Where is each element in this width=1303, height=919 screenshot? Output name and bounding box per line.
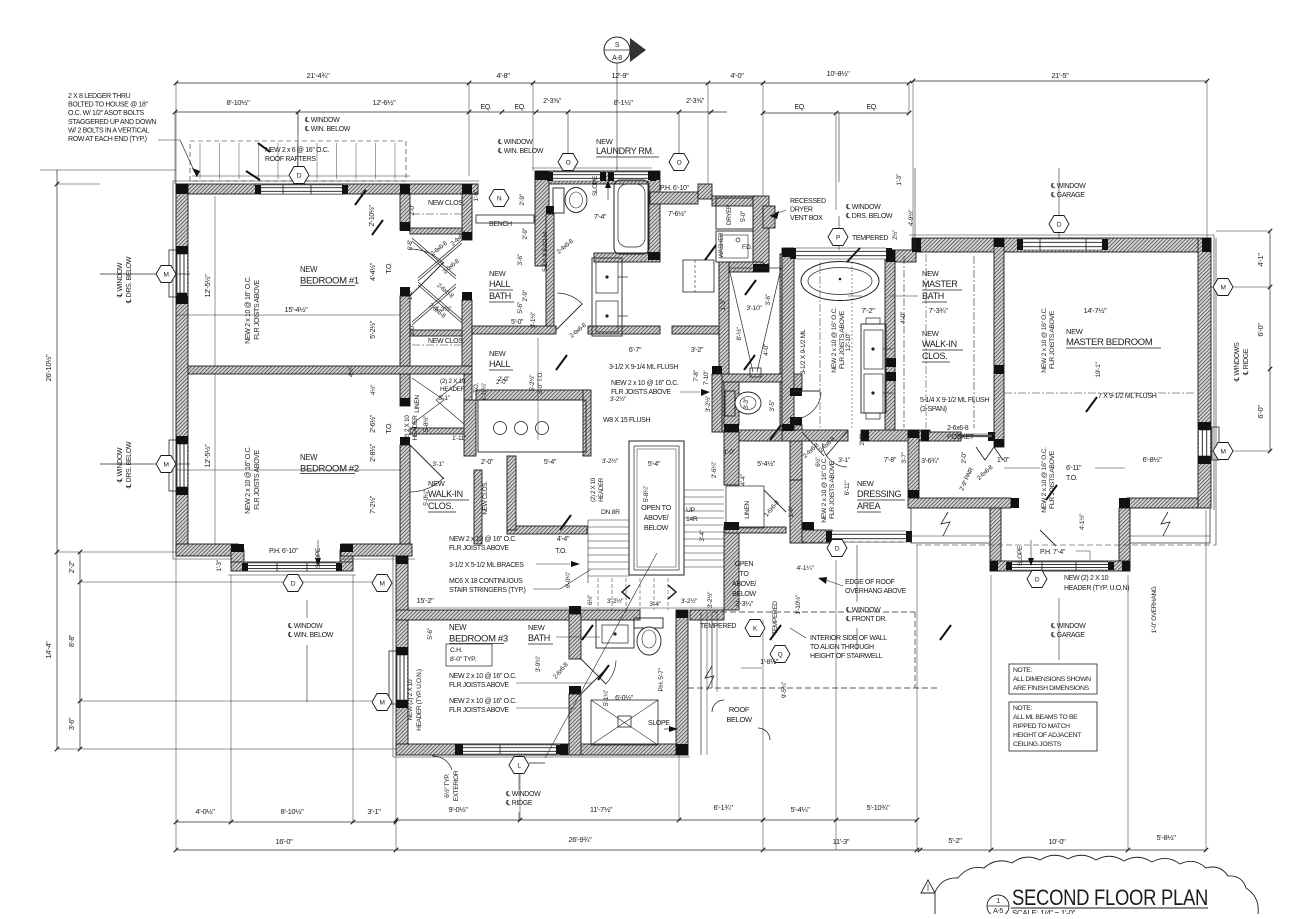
bath east wall xyxy=(676,610,688,755)
svg-text:FLR JOISTS ABOVE: FLR JOISTS ABOVE xyxy=(829,460,836,519)
svg-text:6'-11": 6'-11" xyxy=(1066,465,1082,472)
closet divider lower xyxy=(410,330,462,336)
svg-text:℄ FRONT DR.: ℄ FRONT DR. xyxy=(845,616,887,623)
svg-text:3'-2½": 3'-2½" xyxy=(610,395,627,403)
svg-text:NEW 2 x 10 @ 16" O.C.: NEW 2 x 10 @ 16" O.C. xyxy=(611,380,679,387)
svg-text:8'-1½": 8'-1½" xyxy=(613,98,633,107)
svg-text:3'-6": 3'-6" xyxy=(765,293,772,305)
svg-text:4½": 4½" xyxy=(347,366,355,377)
svg-text:M: M xyxy=(379,699,384,706)
master bath tempered window xyxy=(796,248,886,259)
master suite north wall xyxy=(912,238,1211,252)
svg-text:EQ.: EQ. xyxy=(480,104,491,111)
svg-text:FLR JOISTS ABOVE: FLR JOISTS ABOVE xyxy=(254,279,261,339)
svg-text:D: D xyxy=(291,580,296,587)
hall bath west plumbing wall xyxy=(535,171,549,266)
svg-text:4'-1": 4'-1" xyxy=(1256,253,1265,267)
svg-text:℄ WINDOW: ℄ WINDOW xyxy=(117,447,124,483)
svg-text:BEDROOM #1: BEDROOM #1 xyxy=(300,276,359,287)
laundry ne wall xyxy=(712,196,758,206)
svg-text:ARE FINISH DIMENSIONS: ARE FINISH DIMENSIONS xyxy=(1013,685,1090,692)
svg-text:5'-6": 5'-6" xyxy=(427,627,434,639)
svg-text:6'-0": 6'-0" xyxy=(1256,323,1265,337)
svg-text:2'-0": 2'-0" xyxy=(409,323,416,335)
svg-text:NEW 2 x 10 @ 16" O.C.: NEW 2 x 10 @ 16" O.C. xyxy=(245,446,252,514)
svg-text:℄ GARAGE: ℄ GARAGE xyxy=(1050,632,1085,639)
svg-text:NEW 2 x 10 @ 16" O.C.: NEW 2 x 10 @ 16" O.C. xyxy=(1041,307,1048,373)
svg-text:5'-2½": 5'-2½" xyxy=(528,374,536,391)
door bedroom1 xyxy=(410,262,444,296)
svg-text:LINEN: LINEN xyxy=(744,501,751,519)
svg-text:OVERHANG ABOVE: OVERHANG ABOVE xyxy=(845,588,907,595)
door bedroom2 xyxy=(410,445,444,479)
svg-text:F.D.: F.D. xyxy=(742,244,752,251)
bay window sill wall xyxy=(231,562,353,571)
svg-text:2'-3⅝": 2'-3⅝" xyxy=(686,98,705,105)
left exterior wall xyxy=(176,184,188,556)
stair hall south wall xyxy=(396,610,640,620)
svg-text:6½": 6½" xyxy=(815,457,822,467)
svg-text:D: D xyxy=(835,545,840,552)
master bath west wall xyxy=(782,248,794,432)
svg-text:6'-0¼": 6'-0¼" xyxy=(565,571,572,588)
svg-text:15'-4½": 15'-4½" xyxy=(285,305,309,314)
master south wall west segment xyxy=(908,498,1011,508)
svg-text:FLR JOISTS ABOVE: FLR JOISTS ABOVE xyxy=(449,707,509,714)
svg-text:FLR JOISTS ABOVE: FLR JOISTS ABOVE xyxy=(839,310,846,369)
svg-text:19'-1": 19'-1" xyxy=(1095,361,1102,377)
left dimension column xyxy=(56,170,58,749)
svg-text:3'-1": 3'-1" xyxy=(838,457,851,464)
svg-text:21'-5": 21'-5" xyxy=(1051,71,1069,80)
tub south wall xyxy=(594,253,660,262)
svg-text:NEW: NEW xyxy=(428,479,446,488)
right dimension column xyxy=(1269,231,1271,451)
svg-text:℄ WINDOW: ℄ WINDOW xyxy=(1050,183,1086,190)
svg-text:℄ WINDOW: ℄ WINDOW xyxy=(505,791,541,798)
svg-text:W/ 2 BOLTS IN A VERTICAL: W/ 2 BOLTS IN A VERTICAL xyxy=(68,127,150,134)
svg-text:℄ WINDOW: ℄ WINDOW xyxy=(287,623,323,630)
svg-text:8'-0" TYP.: 8'-0" TYP. xyxy=(450,656,476,663)
svg-text:5'-2½": 5'-2½" xyxy=(369,320,377,339)
closet divider upper xyxy=(410,228,462,234)
svg-text:NEW 2 x 10 @ 16" O.C.: NEW 2 x 10 @ 16" O.C. xyxy=(449,673,517,680)
svg-text:NEW: NEW xyxy=(596,137,614,146)
svg-text:HEADER: HEADER xyxy=(598,477,605,502)
svg-text:2'-0": 2'-0" xyxy=(481,459,494,466)
svg-text:NEW: NEW xyxy=(1066,327,1084,336)
svg-text:NEW: NEW xyxy=(300,265,318,274)
svg-text:2'-9": 2'-9" xyxy=(522,227,529,239)
master suite east wall xyxy=(1198,238,1211,508)
centerline window bottom-left xyxy=(306,600,308,618)
svg-text:TEMPERED: TEMPERED xyxy=(700,623,736,630)
svg-text:8'-8": 8'-8" xyxy=(69,634,76,647)
svg-text:4'-8": 4'-8" xyxy=(496,71,510,80)
linen2 box xyxy=(726,486,764,528)
svg-text:(2-SPAN): (2-SPAN) xyxy=(920,406,947,413)
svg-text:FLR JOISTS ABOVE: FLR JOISTS ABOVE xyxy=(254,449,261,509)
svg-text:℄ WINDOW: ℄ WINDOW xyxy=(845,204,881,211)
svg-text:NEW (2) 2 X 10: NEW (2) 2 X 10 xyxy=(1064,575,1109,582)
svg-text:NEW: NEW xyxy=(449,623,467,632)
svg-text:C.H.: C.H. xyxy=(450,647,463,654)
svg-text:M: M xyxy=(1220,448,1225,455)
svg-text:3'-1": 3'-1" xyxy=(438,395,450,402)
svg-text:4½": 4½" xyxy=(369,384,377,395)
closet rods dash-dot xyxy=(412,213,462,215)
svg-text:6'-11": 6'-11" xyxy=(844,480,851,496)
svg-text:3-1/2 X 5-1/2 ML BRACES: 3-1/2 X 5-1/2 ML BRACES xyxy=(449,562,524,569)
svg-text:14'-7½": 14'-7½" xyxy=(1084,306,1108,315)
rafter zone top left xyxy=(190,141,406,181)
toilet powder xyxy=(725,391,735,416)
svg-text:℄ RIDGE: ℄ RIDGE xyxy=(505,800,533,807)
svg-text:7'-4": 7'-4" xyxy=(594,214,607,221)
svg-text:4'-1½": 4'-1½" xyxy=(1078,513,1086,530)
svg-text:2'-6¼": 2'-6¼" xyxy=(711,461,718,478)
svg-text:15'-2": 15'-2" xyxy=(416,596,434,605)
laundry notch corner xyxy=(698,184,712,199)
svg-text:14R: 14R xyxy=(686,516,698,523)
toilet hall bath xyxy=(553,188,564,213)
svg-text:2'-9": 2'-9" xyxy=(519,193,526,205)
shower column east wall xyxy=(780,254,792,432)
svg-text:3'-4": 3'-4" xyxy=(649,601,661,608)
svg-text:4'-4": 4'-4" xyxy=(557,536,570,543)
svg-text:6'-6": 6'-6" xyxy=(408,240,414,250)
svg-text:P.H. 6'-10": P.H. 6'-10" xyxy=(269,548,299,555)
bedroom3 west window xyxy=(397,655,407,700)
linen2 south wall xyxy=(724,527,786,533)
svg-text:NEW: NEW xyxy=(489,269,507,278)
bottom wall west segment xyxy=(176,544,238,556)
svg-text:CLOS.: CLOS. xyxy=(922,351,947,361)
svg-text:MASTER BEDROOM: MASTER BEDROOM xyxy=(1066,337,1153,348)
svg-text:1'-11": 1'-11" xyxy=(452,435,467,442)
svg-text:STAGGERED UP AND DOWN: STAGGERED UP AND DOWN xyxy=(68,119,156,126)
svg-text:NEW CLOS.: NEW CLOS. xyxy=(482,481,489,515)
bench xyxy=(476,215,534,223)
section marker A-8 xyxy=(604,37,630,63)
svg-text:3'-5": 3'-5" xyxy=(769,399,776,411)
svg-text:3'-10": 3'-10" xyxy=(746,305,762,312)
svg-text:3'-2½": 3'-2½" xyxy=(681,597,698,605)
svg-text:HEADER (TYP. U.O.N): HEADER (TYP. U.O.N) xyxy=(1064,585,1129,592)
svg-text:TO ALIGN THROUGH: TO ALIGN THROUGH xyxy=(810,644,874,651)
svg-text:9'-0½": 9'-0½" xyxy=(448,805,468,814)
svg-text:RECESSED: RECESSED xyxy=(790,198,826,205)
svg-text:NEW: NEW xyxy=(528,623,546,632)
svg-text:EQ.: EQ. xyxy=(514,104,525,111)
svg-text:NEW 2 x 10 @ 16" O.C.: NEW 2 x 10 @ 16" O.C. xyxy=(1041,447,1048,513)
svg-text:NEW 2 x 10 @ 16" O.C.: NEW 2 x 10 @ 16" O.C. xyxy=(831,307,838,373)
walk-in closet east wall xyxy=(474,470,482,544)
svg-text:6'-1¾": 6'-1¾" xyxy=(713,803,733,812)
svg-text:12'-6½": 12'-6½" xyxy=(373,98,397,107)
svg-text:MASTER: MASTER xyxy=(922,279,958,289)
washer xyxy=(716,231,753,262)
svg-text:4'-0": 4'-0" xyxy=(900,311,907,324)
shower column south wall xyxy=(726,430,782,441)
svg-text:9'-5¾": 9'-5¾" xyxy=(781,681,788,698)
svg-text:EQ.: EQ. xyxy=(866,104,877,111)
closet X doors bedroom area xyxy=(412,238,456,276)
svg-text:8'-½": 8'-½" xyxy=(735,326,743,340)
svg-text:FLR JOISTS ABOVE: FLR JOISTS ABOVE xyxy=(611,389,671,396)
svg-text:1'-9": 1'-9" xyxy=(788,505,795,517)
svg-text:NEW 2 x 6 @ 16" O.C.: NEW 2 x 6 @ 16" O.C. xyxy=(265,147,329,154)
svg-text:CEILING JOISTS: CEILING JOISTS xyxy=(1013,741,1062,748)
svg-text:6'-0": 6'-0" xyxy=(1256,405,1265,419)
svg-text:℄ WINDOW: ℄ WINDOW xyxy=(117,262,124,298)
svg-text:5'-4": 5'-4" xyxy=(648,461,661,468)
svg-text:5'-8¼": 5'-8¼" xyxy=(643,485,650,502)
title triangle xyxy=(921,880,935,893)
svg-text:NEW 2 x 10 @ 16" O.C.: NEW 2 x 10 @ 16" O.C. xyxy=(821,457,828,523)
master closet door bifold xyxy=(976,447,1003,460)
svg-text:T.O.: T.O. xyxy=(474,383,480,393)
svg-text:VENT BOX: VENT BOX xyxy=(790,215,823,222)
svg-text:1'-9": 1'-9" xyxy=(473,189,480,201)
svg-text:14'-4": 14'-4" xyxy=(44,641,53,659)
svg-text:NEW: NEW xyxy=(922,269,940,278)
svg-text:FLR JOISTS ABOVE: FLR JOISTS ABOVE xyxy=(1049,450,1056,509)
svg-text:℄ WINDOW: ℄ WINDOW xyxy=(845,607,881,614)
svg-text:26'-10½": 26'-10½" xyxy=(44,354,53,381)
centerline garage window xyxy=(1058,168,1060,238)
svg-text:EQ.: EQ. xyxy=(794,104,805,111)
window seat outlines master xyxy=(911,508,990,543)
svg-text:WASHER: WASHER xyxy=(718,232,725,258)
centerline top-left window xyxy=(297,112,299,184)
svg-text:2'-3¼": 2'-3¼" xyxy=(735,601,754,608)
svg-text:6'-0½": 6'-0½" xyxy=(615,694,634,702)
svg-text:2'-2": 2'-2" xyxy=(69,560,76,573)
svg-text:1'-0" OVERHANG: 1'-0" OVERHANG xyxy=(1151,586,1158,633)
svg-text:1: 1 xyxy=(996,898,1000,905)
linen shelving triangles xyxy=(412,378,444,424)
svg-text:4'-4": 4'-4" xyxy=(740,473,747,485)
svg-text:1'-3": 1'-3" xyxy=(216,559,223,571)
svg-text:16'-0": 16'-0" xyxy=(275,837,293,846)
revision cloud xyxy=(935,855,1258,914)
svg-text:A-5: A-5 xyxy=(993,908,1003,914)
svg-text:INTERIOR SIDE OF WALL: INTERIOR SIDE OF WALL xyxy=(810,635,887,642)
svg-text:2'-0": 2'-0" xyxy=(498,376,510,383)
bath3 shower xyxy=(591,700,658,745)
note box 2 xyxy=(1009,702,1097,751)
svg-text:W8 X 15 FLUSH: W8 X 15 FLUSH xyxy=(603,417,650,424)
svg-text:(2) 2 X 10: (2) 2 X 10 xyxy=(404,415,411,441)
svg-text:4'-0": 4'-0" xyxy=(730,71,744,80)
svg-text:NEW CLOS.: NEW CLOS. xyxy=(428,200,465,207)
dressing doors xyxy=(802,432,824,456)
svg-text:BATH: BATH xyxy=(922,291,944,301)
linen closet walls xyxy=(464,374,472,434)
svg-text:7 X 9-1/2 ML FLUSH: 7 X 9-1/2 ML FLUSH xyxy=(1098,393,1157,400)
svg-text:11'-3": 11'-3" xyxy=(833,837,850,846)
svg-text:4'-0½": 4'-0½" xyxy=(195,807,215,816)
svg-text:BENCH: BENCH xyxy=(489,221,512,228)
stair shaft open to above/below xyxy=(629,441,684,575)
svg-text:5'-4": 5'-4" xyxy=(544,459,557,466)
svg-text:℄ WINDOWS: ℄ WINDOWS xyxy=(1234,342,1241,382)
svg-text:SCALE: 1/4" = 1'-0": SCALE: 1/4" = 1'-0" xyxy=(1012,909,1076,914)
hall built-in counter xyxy=(478,400,586,452)
svg-text:ROOF: ROOF xyxy=(729,705,750,714)
svg-text:℄ WINDOW: ℄ WINDOW xyxy=(497,139,533,146)
svg-text:BEDROOM #2: BEDROOM #2 xyxy=(300,464,359,475)
svg-text:D: D xyxy=(1035,576,1040,583)
svg-text:3'-4": 3'-4" xyxy=(699,529,706,541)
laundry north wall xyxy=(535,171,650,184)
svg-text:2'-0": 2'-0" xyxy=(859,433,866,445)
svg-text:1'-8½": 1'-8½" xyxy=(760,658,779,666)
svg-text:FLR JOISTS ABOVE: FLR JOISTS ABOVE xyxy=(449,682,509,689)
svg-text:D: D xyxy=(1057,221,1062,228)
svg-text:FLR JOISTS ABOVE: FLR JOISTS ABOVE xyxy=(449,545,509,552)
wall between bedroom1 and bedroom2 xyxy=(188,366,472,374)
svg-text:O: O xyxy=(677,159,682,166)
centerline front door xyxy=(856,545,858,602)
stair treads right (up) xyxy=(684,489,724,491)
master bay west cheek xyxy=(990,508,1001,571)
svg-text:7'-8": 7'-8" xyxy=(884,457,897,464)
svg-text:2'-0": 2'-0" xyxy=(409,203,416,215)
svg-text:SECOND FLOOR PLAN: SECOND FLOOR PLAN xyxy=(1012,885,1208,910)
svg-text:5'-0": 5'-0" xyxy=(511,319,524,326)
svg-text:NEW 2 x 10 @ 16" O.C.: NEW 2 x 10 @ 16" O.C. xyxy=(449,536,517,543)
svg-text:RIPPED TO MATCH: RIPPED TO MATCH xyxy=(1013,723,1070,730)
svg-text:S: S xyxy=(615,42,620,49)
bay window right cheek xyxy=(340,550,353,570)
bath3 sink xyxy=(596,620,634,648)
svg-text:NEW: NEW xyxy=(857,479,875,488)
counter room walls xyxy=(476,390,589,400)
svg-text:BATH: BATH xyxy=(528,633,550,643)
svg-text:TO: TO xyxy=(740,571,750,578)
svg-text:ROW AT EACH END (TYP.): ROW AT EACH END (TYP.) xyxy=(68,136,147,143)
svg-text:ALL ML BEAMS TO BE: ALL ML BEAMS TO BE xyxy=(1013,714,1078,721)
hall bath vanity xyxy=(592,258,622,336)
svg-text:AREA: AREA xyxy=(857,501,880,511)
svg-text:7'-3¾": 7'-3¾" xyxy=(928,306,948,315)
laundry notch wall xyxy=(650,192,698,204)
svg-text:6½": 6½" xyxy=(586,594,594,605)
top dimension row 1 xyxy=(176,82,909,84)
svg-text:BELOW: BELOW xyxy=(644,523,669,532)
svg-text:℄ WINDOW: ℄ WINDOW xyxy=(1050,623,1086,630)
svg-text:℄ GARAGE: ℄ GARAGE xyxy=(1050,192,1085,199)
svg-text:5'-4½": 5'-4½" xyxy=(757,460,776,468)
svg-text:6½" TYP.: 6½" TYP. xyxy=(443,774,451,798)
exterior sheathing offset lines xyxy=(173,180,479,182)
master bay door swing xyxy=(1040,530,1056,546)
master bay east cheek xyxy=(1119,508,1130,571)
svg-text:BATH: BATH xyxy=(489,291,511,301)
stair hall east wall xyxy=(724,382,739,425)
master bay sill wall xyxy=(990,561,1130,571)
stair winders bottom xyxy=(597,578,599,610)
svg-text:2'-6½": 2'-6½" xyxy=(369,414,377,433)
svg-text:5-1/4 X 9-1/2 ML FLUSH: 5-1/4 X 9-1/2 ML FLUSH xyxy=(920,397,989,404)
svg-text:℄ WIN. BELOW: ℄ WIN. BELOW xyxy=(287,632,334,639)
centerlines laundry windows xyxy=(567,113,569,171)
svg-text:DRYER: DRYER xyxy=(726,204,733,225)
laundry north windows xyxy=(553,172,600,181)
window seat zigzags xyxy=(941,512,950,536)
bathtub laundry xyxy=(614,180,649,254)
svg-text:HEIGHT OF ADJACENT: HEIGHT OF ADJACENT xyxy=(1013,732,1081,739)
big shower master xyxy=(729,268,753,372)
svg-text:(2) 2 X 10: (2) 2 X 10 xyxy=(590,477,597,502)
svg-text:11'-7½": 11'-7½" xyxy=(590,805,613,814)
walk-in/bedroom divider wall xyxy=(994,238,1004,447)
stair direction chevrons xyxy=(622,585,630,599)
svg-text:EDGE OF ROOF: EDGE OF ROOF xyxy=(845,579,895,586)
bath3 toilet xyxy=(634,618,663,628)
black jack blocks at openings xyxy=(400,222,410,231)
svg-text:12'-5½": 12'-5½" xyxy=(203,444,212,468)
svg-text:N: N xyxy=(497,195,502,202)
svg-text:3'-2½": 3'-2½" xyxy=(706,591,714,608)
svg-text:WALK-IN: WALK-IN xyxy=(922,339,957,349)
svg-text:1'-0": 1'-0" xyxy=(723,449,735,456)
svg-text:5'-2": 5'-2" xyxy=(948,836,962,845)
svg-text:NEW: NEW xyxy=(300,453,318,462)
closet column east wall xyxy=(462,194,472,240)
svg-text:ABOVE/: ABOVE/ xyxy=(644,513,669,522)
svg-text:3'-2½": 3'-2½" xyxy=(704,395,712,412)
svg-text:Q: Q xyxy=(778,651,783,658)
shower column west wall xyxy=(719,262,729,432)
svg-text:5'-0": 5'-0" xyxy=(740,211,747,222)
svg-text:5'-6": 5'-6" xyxy=(517,301,524,313)
svg-text:OPEN TO: OPEN TO xyxy=(641,503,671,512)
svg-text:HEADER: HEADER xyxy=(440,386,466,393)
svg-text:12'-5½": 12'-5½" xyxy=(203,274,212,298)
svg-text:7'-6½": 7'-6½" xyxy=(668,210,687,218)
svg-text:P.H. 5'-7": P.H. 5'-7" xyxy=(658,667,665,691)
master east wall window xyxy=(1199,430,1210,456)
svg-text:M: M xyxy=(379,580,384,587)
svg-text:TEMPERED: TEMPERED xyxy=(772,601,779,635)
svg-text:EXTERIOR: EXTERIOR xyxy=(453,770,460,801)
svg-text:HEIGHT OF STAIRWELL: HEIGHT OF STAIRWELL xyxy=(810,653,883,660)
svg-text:UP: UP xyxy=(686,507,696,514)
svg-text:2'-10½": 2'-10½" xyxy=(368,205,376,227)
svg-text:3'-9¾": 3'-9¾" xyxy=(535,655,542,672)
svg-text:4'-1¼": 4'-1¼" xyxy=(796,565,814,572)
svg-text:NOTE:: NOTE: xyxy=(1013,667,1032,674)
svg-text:D: D xyxy=(297,172,302,179)
svg-text:MC6 X 18 CONTINUOUS: MC6 X 18 CONTINUOUS xyxy=(449,578,523,585)
master south wall east segment xyxy=(1127,498,1198,508)
window left wall bedroom2 xyxy=(177,444,187,487)
svg-text:DN 8R: DN 8R xyxy=(601,509,620,516)
svg-text:HALL: HALL xyxy=(489,359,510,369)
svg-text:CLOS.: CLOS. xyxy=(428,501,453,511)
stair treads left (dn) xyxy=(588,519,629,521)
master bath east wall xyxy=(885,250,895,440)
svg-text:1'-6": 1'-6" xyxy=(408,290,414,300)
svg-text:2'-9": 2'-9" xyxy=(522,289,529,301)
svg-text:8'-10½": 8'-10½" xyxy=(281,807,305,816)
svg-text:1'-3": 1'-3" xyxy=(720,298,727,310)
svg-text:NEW: NEW xyxy=(489,349,507,358)
svg-text:7'-2": 7'-2" xyxy=(861,306,875,315)
